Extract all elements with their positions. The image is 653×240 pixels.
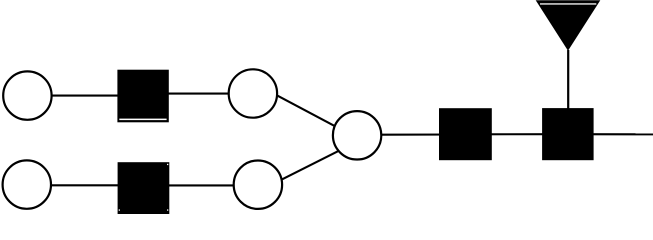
- circle Man2: [234, 161, 282, 209]
- square GlcNAc4: [542, 108, 594, 160]
- wire GlcNAc4 to reducing end: [568, 133, 653, 135]
- square GlcNAc1 white gap line: [119, 119, 166, 121]
- wire Man2 to Man3 branch: [270, 148, 345, 186]
- wire Man3 to GlcNAc3: [357, 133, 465, 135]
- triangle Fuc: [536, 0, 601, 51]
- square GlcNAc3: [439, 108, 492, 160]
- circle Gal1: [3, 71, 51, 119]
- wire GlcNAc2 to Man2: [144, 184, 259, 186]
- square GlcNAc1: [117, 70, 168, 123]
- wire Fuc to GlcNAc4 vertical: [567, 50, 569, 110]
- wire Man1 to Man3 branch: [270, 92, 345, 132]
- square GlcNAc2 corner dot top-right: [167, 164, 168, 165]
- circle Man3 central: [333, 111, 381, 159]
- wire Gal1 to GlcNAc1: [27, 95, 145, 97]
- wire GlcNAc3 to GlcNAc4: [465, 133, 568, 135]
- square GlcNAc2 corner dot bottom-right: [167, 209, 168, 210]
- wire GlcNAc1 to Man1: [143, 93, 253, 95]
- square GlcNAc2 corner dot bottom-left: [119, 209, 120, 210]
- triangle Fuc white gap line: [540, 3, 596, 4]
- wire Gal2 to GlcNAc2: [27, 184, 145, 186]
- circle Man1: [229, 69, 277, 117]
- square GlcNAc2: [118, 162, 170, 214]
- circle Gal2: [3, 160, 51, 208]
